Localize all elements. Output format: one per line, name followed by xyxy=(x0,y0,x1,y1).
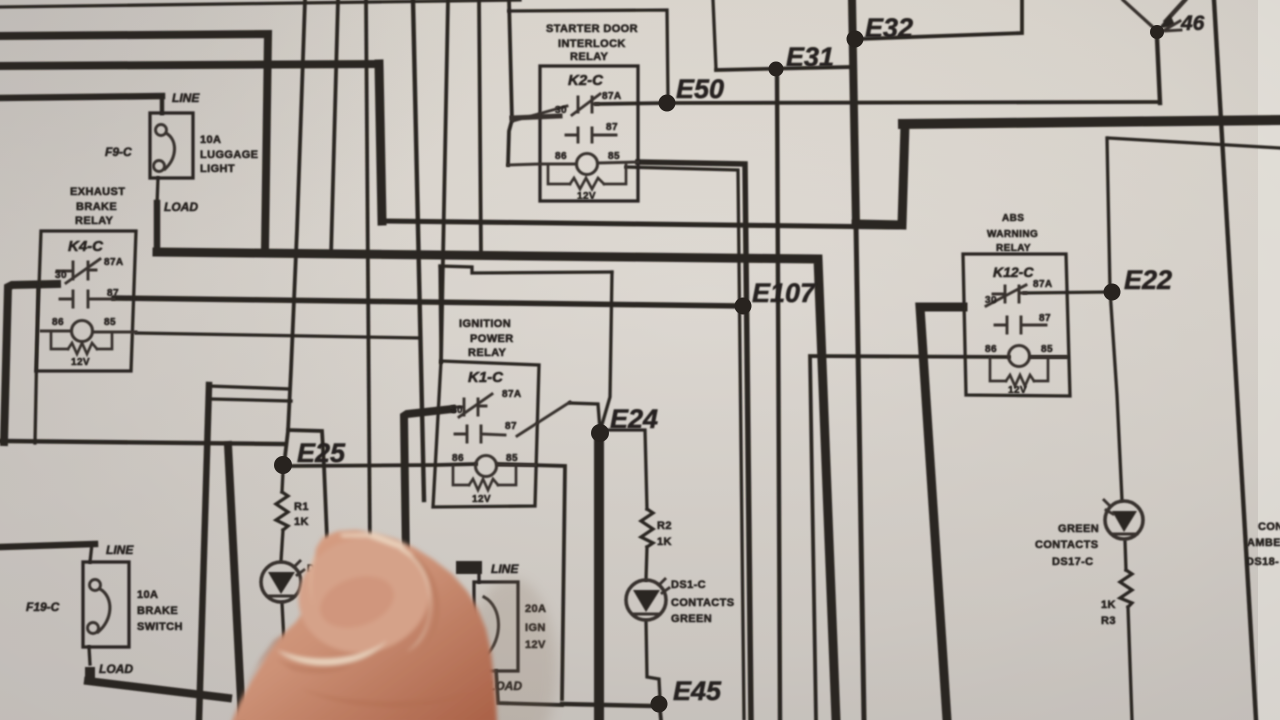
svg-text:E45: E45 xyxy=(673,676,722,706)
svg-text:LUGGAGE: LUGGAGE xyxy=(200,149,258,161)
relay K4 contact 30-87A xyxy=(57,259,100,283)
svg-text:K2-C: K2-C xyxy=(568,72,604,89)
wire brake fuse line drop xyxy=(90,544,92,562)
wire thick power bus H8 to right edge xyxy=(903,120,1280,124)
node E32 dot xyxy=(847,31,864,48)
wire vertical V509 through starter box corner xyxy=(508,0,512,165)
starter door interlock outer box xyxy=(509,10,668,98)
wire top bus H1 xyxy=(0,0,520,7)
svg-text:BRAKE: BRAKE xyxy=(137,605,178,617)
wire node E31 horizontal xyxy=(716,67,851,70)
wire thick vertical V600 below E24 xyxy=(594,433,604,720)
wire lamp DS down behind finger xyxy=(282,603,285,660)
svg-text:DS18-: DS18- xyxy=(1246,556,1279,568)
relay K4-C box xyxy=(36,231,136,371)
svg-text:87: 87 xyxy=(1039,313,1051,324)
wire ignition outer box left edge xyxy=(440,266,441,361)
svg-text:46: 46 xyxy=(1180,12,1205,35)
wire box corner H16a xyxy=(209,386,290,389)
wire thick bus H13 luggage load run with corner V818 xyxy=(157,252,836,720)
svg-text:F19-C: F19-C xyxy=(26,600,60,614)
relay K1 contact 30-87A xyxy=(452,394,492,417)
svg-text:K12-C: K12-C xyxy=(993,264,1034,280)
svg-text:87: 87 xyxy=(107,288,119,299)
svg-text:ABS: ABS xyxy=(1002,213,1024,224)
wire fuse 20A load lead xyxy=(496,671,562,705)
relay K12 resistor zigzag xyxy=(1006,375,1034,386)
lamp DS1-C xyxy=(626,580,666,620)
wire vertical V228 xyxy=(228,445,242,720)
svg-text:30: 30 xyxy=(985,295,997,306)
svg-text:E25: E25 xyxy=(297,438,346,468)
relay K2-C box xyxy=(540,66,638,201)
svg-text:87A: 87A xyxy=(1033,279,1053,290)
svg-text:RELAY: RELAY xyxy=(75,215,114,227)
svg-text:STARTER DOOR: STARTER DOOR xyxy=(546,23,638,35)
wire R2 to lamp DS1 xyxy=(646,547,647,580)
svg-text:E32: E32 xyxy=(865,13,913,43)
relay K1-C box xyxy=(433,361,539,507)
node E22 dot xyxy=(1104,284,1121,301)
resistor R1 xyxy=(276,492,288,530)
wire thick vertical V381 from H4 to H12 xyxy=(379,64,382,221)
wire inner companion run xyxy=(626,167,744,719)
relay K4 coil leads xyxy=(41,331,136,332)
svg-text:EXHAUST: EXHAUST xyxy=(70,186,125,198)
svg-text:GREEN: GREEN xyxy=(1058,523,1099,535)
svg-text:85: 85 xyxy=(506,453,518,464)
svg-text:87: 87 xyxy=(505,421,517,432)
svg-text:87A: 87A xyxy=(502,389,522,400)
relay K2 switch arm xyxy=(513,106,567,121)
wire luggage fuse line feeder H2b xyxy=(0,96,162,98)
svg-text:CONTACTS: CONTACTS xyxy=(1035,539,1099,551)
fuse F19-C terminals xyxy=(90,580,101,591)
wire vertical V1114 E22 riser down to lamp DS17 xyxy=(1107,138,1122,500)
relay K2 resistor loop xyxy=(548,165,626,184)
relay K12-C box xyxy=(963,254,1070,396)
svg-text:1K: 1K xyxy=(1101,599,1116,611)
relay K12 coil lead xyxy=(1030,356,1066,359)
wire 46 connector drop to E50 run xyxy=(1157,38,1160,103)
finger pointing hand xyxy=(231,524,497,720)
wire E31 to E32 riser xyxy=(852,39,854,67)
wire luggage fuse line drop xyxy=(160,96,164,113)
wire thick feeder H3 with corner down to H13 xyxy=(0,34,268,250)
relay K12 coil xyxy=(1009,346,1030,367)
wire vertical V305 to node E25 xyxy=(284,0,305,465)
svg-text:86: 86 xyxy=(555,151,567,162)
wire fuse 20A line stub xyxy=(456,561,482,574)
relay K2 coil xyxy=(577,154,598,175)
svg-text:85: 85 xyxy=(104,317,116,328)
wire thin vertical V858 below junction xyxy=(856,225,864,720)
wire brake fuse line feeder H15 xyxy=(0,544,95,547)
svg-text:INTERLOCK: INTERLOCK xyxy=(558,38,626,50)
wire vertical V480 xyxy=(479,0,481,257)
svg-text:IGNITION: IGNITION xyxy=(459,318,511,330)
wire node E22 link xyxy=(1024,292,1108,293)
svg-text:86: 86 xyxy=(985,344,997,355)
wire node E32 horizontal to corner up xyxy=(858,0,1022,39)
relay K1 coil xyxy=(476,456,497,477)
node E107 dot xyxy=(735,298,752,315)
svg-text:DS1-C: DS1-C xyxy=(671,579,706,591)
relay K12 resistor loop xyxy=(990,358,1048,381)
fuse F9-C box xyxy=(150,113,193,178)
node E24 dot xyxy=(591,424,609,442)
node E50 dot xyxy=(659,95,676,112)
wire switch arm feed to E24 xyxy=(570,403,600,430)
svg-text:R1: R1 xyxy=(294,501,309,513)
fuse F9-C terminals xyxy=(156,125,167,136)
svg-text:30: 30 xyxy=(55,270,67,281)
wire lamp DS1 to E45 jog xyxy=(646,621,660,699)
resistor R2 xyxy=(641,509,653,547)
wire E25 run to coil and corner V565 xyxy=(291,464,565,699)
svg-text:CON: CON xyxy=(1258,521,1280,533)
wire E45 drop to edge xyxy=(660,710,661,720)
svg-text:SWITCH: SWITCH xyxy=(137,621,183,633)
svg-text:12V: 12V xyxy=(71,357,90,368)
svg-text:LINE: LINE xyxy=(106,543,134,557)
wire luggage fuse load drop xyxy=(157,178,158,205)
svg-text:POWER: POWER xyxy=(470,333,514,345)
wire vertical V712 to E31 wire xyxy=(713,0,716,69)
relay K1 resistor loop xyxy=(453,466,516,485)
wire E24 branch to R2 xyxy=(607,430,647,509)
wire fuse 20A line lead xyxy=(477,574,480,582)
relay K12 contact 30-87A xyxy=(986,285,1026,306)
fuse 20A box xyxy=(474,582,518,671)
svg-text:RELAY: RELAY xyxy=(996,243,1031,254)
svg-text:CONTACTS: CONTACTS xyxy=(671,597,735,609)
relay K4 resistor loop xyxy=(51,332,112,349)
wire vertical V414 xyxy=(413,0,424,500)
relay K4 coil xyxy=(72,321,93,342)
node E25 dot xyxy=(274,456,292,474)
wire vertical V336 xyxy=(331,0,338,256)
svg-text:10A: 10A xyxy=(200,134,221,146)
relay K1 contact 87 xyxy=(455,426,505,442)
wire ignition outer box top xyxy=(440,266,612,273)
svg-text:LINE: LINE xyxy=(172,91,200,105)
svg-text:1K: 1K xyxy=(294,516,309,528)
lamp DS near E25 xyxy=(261,562,301,602)
node E45 dot xyxy=(651,696,668,713)
wire coil 85 run to corner V744 xyxy=(638,162,751,720)
svg-text:86: 86 xyxy=(452,453,464,464)
connector 46 arrow right thick xyxy=(1166,0,1185,21)
fuse 20A element arc xyxy=(484,597,499,655)
wire box corner H16b xyxy=(212,399,291,401)
svg-text:12V: 12V xyxy=(577,191,596,202)
wire lamp DS17 to R3 xyxy=(1125,541,1126,570)
svg-text:30: 30 xyxy=(555,105,567,116)
svg-text:E22: E22 xyxy=(1124,265,1172,295)
svg-text:10A: 10A xyxy=(137,589,158,601)
node E31 dot xyxy=(769,62,784,77)
wire ignition relay 30 thick feeder with corner V405 xyxy=(404,409,452,560)
svg-text:DS17-C: DS17-C xyxy=(1052,556,1094,568)
svg-text:RELAY: RELAY xyxy=(468,347,507,359)
wire R3 to bottom edge xyxy=(1128,607,1132,720)
svg-text:12V: 12V xyxy=(472,494,491,505)
svg-text:87A: 87A xyxy=(602,91,622,102)
fuse F19-C box xyxy=(83,562,129,647)
svg-text:LOAD: LOAD xyxy=(99,662,133,676)
wire thick elbow H9 V905 xyxy=(856,124,905,225)
svg-text:85: 85 xyxy=(608,151,620,162)
finger shadow on paper xyxy=(467,578,557,720)
connector 46 arrow left xyxy=(1123,0,1155,29)
svg-text:R2: R2 xyxy=(657,520,672,532)
wire vertical V209 xyxy=(199,385,209,720)
relay K1 resistor zigzag xyxy=(469,479,498,490)
svg-text:WARNING: WARNING xyxy=(987,229,1038,240)
svg-text:AMBE: AMBE xyxy=(1247,537,1280,549)
svg-text:E24: E24 xyxy=(610,404,658,434)
relay K2 resistor zigzag xyxy=(570,178,604,189)
svg-text:GREEN: GREEN xyxy=(671,613,712,625)
wire exhaust 30 thick feeder with corner V10 xyxy=(4,284,57,442)
relay K12 contact 87 xyxy=(995,317,1046,333)
wire bus H12 relay K2 row xyxy=(385,221,897,227)
wire thick load diagonal run xyxy=(88,681,228,698)
relay K1 switch arm xyxy=(517,402,570,436)
relay K2 coil leads xyxy=(508,162,638,165)
wire vertical V445 to relay K1 box xyxy=(441,0,448,362)
wire jog from V305 to V322 xyxy=(288,430,324,466)
wire vertical V365 xyxy=(366,0,370,556)
wire box top right of E22 riser xyxy=(1108,138,1280,148)
svg-text:K4-C: K4-C xyxy=(68,238,104,255)
wire bus H14 to E25 drop xyxy=(0,441,285,444)
wire E45 bottom horizontal xyxy=(562,704,654,706)
svg-text:K1-C: K1-C xyxy=(468,369,504,386)
wire exhaust coil 85 run W85 xyxy=(136,333,420,338)
fuse F19-C element arc xyxy=(98,589,110,632)
svg-text:RELAY: RELAY xyxy=(570,51,609,63)
wire luggage fuse load drop thick xyxy=(154,203,161,251)
relay K2 30 feeder stub xyxy=(512,116,560,118)
wire thick bus H4 xyxy=(0,64,378,66)
wire tap V40 xyxy=(35,287,38,443)
node 46 dot xyxy=(1150,25,1164,39)
wire thick ABS 30 feeder V922 xyxy=(920,307,963,720)
svg-text:LOAD: LOAD xyxy=(164,200,198,214)
wire thick vertical V855 from top through E32 xyxy=(852,0,856,225)
svg-text:E107: E107 xyxy=(752,278,817,308)
wire R1 to lamp DS xyxy=(281,530,283,561)
wire E25 to R1 xyxy=(282,472,283,492)
svg-text:LINE: LINE xyxy=(491,562,519,576)
svg-text:F9-C: F9-C xyxy=(105,145,132,159)
wire vertical V322 below E25 run xyxy=(324,466,327,538)
svg-text:87A: 87A xyxy=(104,257,124,268)
wire brake fuse load lead xyxy=(89,647,90,664)
svg-text:12V: 12V xyxy=(1008,385,1027,396)
wire right margin vertical V1225 xyxy=(1214,0,1256,720)
svg-text:E31: E31 xyxy=(786,42,834,72)
wire exhaust relay 87 run to node E107 xyxy=(114,298,740,306)
wire coil return W86 with corner V810 xyxy=(810,356,1067,720)
fuse F9-C element arc xyxy=(165,133,175,169)
svg-text:BRAKE: BRAKE xyxy=(76,201,117,213)
svg-text:87: 87 xyxy=(606,122,618,133)
relay K1 coil lead right xyxy=(497,464,535,467)
wire vertical V777 from E31 down xyxy=(777,70,780,720)
connector 46 arrowhead xyxy=(1158,14,1175,29)
resistor R3 xyxy=(1120,570,1132,607)
svg-text:85: 85 xyxy=(1041,344,1053,355)
wire node E50 horizontal run xyxy=(596,102,1157,104)
connector 46 angle mark xyxy=(1163,21,1181,31)
relay K2 contact 30-87A xyxy=(572,94,600,115)
relay K4 resistor zigzag xyxy=(68,343,97,354)
wire brake fuse load stub xyxy=(85,672,95,679)
svg-text:E50: E50 xyxy=(676,74,724,104)
svg-text:30: 30 xyxy=(451,405,463,416)
wire vertical V612 down to node E24 xyxy=(601,272,612,428)
relay K2 contact 87 xyxy=(566,128,616,142)
svg-text:R3: R3 xyxy=(1101,615,1116,627)
svg-text:LIGHT: LIGHT xyxy=(200,163,235,175)
relay K4 contact 87 xyxy=(60,291,114,307)
svg-text:86: 86 xyxy=(52,317,64,328)
lamp DS17-C xyxy=(1105,501,1143,539)
svg-text:1K: 1K xyxy=(657,536,672,548)
